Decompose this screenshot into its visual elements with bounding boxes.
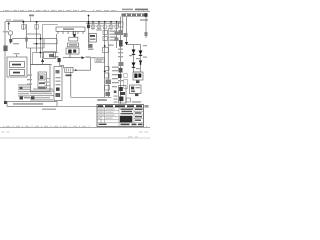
bottom row cells text — [99, 124, 143, 126]
hatch label above top-left box — [13, 20, 24, 22]
dark cluster CR stack — [119, 86, 127, 104]
box on x126.5 — [119, 22, 124, 27]
B1 dark marks — [134, 74, 137, 79]
A1 component — [39, 74, 45, 80]
wire from strip left down to A1 arrow — [43, 24, 59, 26]
PS1 label box 1 — [10, 62, 25, 68]
connector J2 — [65, 68, 73, 73]
column x123 — [122, 17, 124, 30]
top ruler faint labels — [5, 10, 115, 11]
marks on x117 — [115, 32, 119, 35]
A1 bottom marks — [39, 87, 46, 90]
page number text on fold line right — [128, 137, 133, 138]
B2 marks — [131, 87, 134, 90]
wire stub above bus x30.5 — [30, 17, 32, 22]
box U3 — [66, 48, 79, 54]
bus wire B (lower of pair) — [86, 22, 121, 24]
resistor on x93 — [92, 25, 95, 29]
A1 inner box — [38, 72, 47, 88]
diode on x126.5 — [125, 42, 128, 45]
A1 label — [39, 82, 45, 84]
box2 on x105 — [103, 37, 108, 41]
top ruler line — [0, 10, 150, 12]
wire stub from node J1 — [8, 22, 10, 30]
PS1 top label — [14, 53, 20, 54]
box U1 — [69, 37, 78, 41]
resistor on x105 top — [103, 25, 106, 29]
A1 right labels — [45, 78, 50, 86]
gray label right of x93 — [96, 30, 102, 31]
wire v x56.7 — [56, 34, 58, 53]
column x140.5 — [140, 45, 142, 73]
label box mid — [95, 58, 104, 63]
left tiny labels of A1 — [27, 75, 32, 85]
column x117 wire — [116, 22, 118, 48]
resistor R1 — [22, 25, 25, 30]
junction x23.5 — [23, 21, 25, 23]
small boxes right of x120.5 column — [124, 74, 127, 78]
arrowhead down — [73, 34, 77, 37]
node dot x140.5 — [140, 63, 142, 65]
revision table lines — [97, 105, 144, 127]
TB1 pins — [58, 31, 83, 34]
label left of M1 — [3, 31, 8, 32]
second diode on x140.5 — [139, 61, 143, 65]
note symbol dark — [20, 87, 23, 89]
wire h y72 connect — [134, 71, 141, 73]
diode D2 — [132, 50, 136, 54]
note symbol dark 2 — [31, 96, 34, 99]
relay box K1 — [44, 52, 56, 59]
arrow terminal right — [82, 56, 85, 59]
U2 label — [69, 44, 77, 46]
box3 on x105 — [103, 48, 109, 53]
junction node J1 — [8, 23, 10, 25]
sheet no. label top right — [122, 9, 148, 11]
box REG1 — [89, 34, 97, 43]
left border wire — [4, 22, 6, 103]
junction dot x105 — [104, 45, 106, 47]
column x108 wire — [107, 28, 109, 97]
tiny labels left of bus components — [90, 26, 115, 27]
wire h y64.5 — [31, 64, 53, 66]
part number dark block — [120, 116, 133, 123]
wire h y58.2 — [63, 57, 82, 59]
connector strip TB1 — [56, 27, 85, 31]
mesh wire h y52.5 — [33, 52, 59, 54]
A1 dark mark — [40, 76, 43, 80]
PS1 label text 2 — [13, 72, 20, 74]
mark on x146 — [145, 32, 148, 36]
connector P1 cluster — [3, 46, 7, 52]
connector blob — [58, 58, 61, 62]
column x88.5 wire — [88, 15, 90, 48]
bottom ruler ticks — [4, 126, 147, 128]
A2 marks — [56, 70, 60, 74]
mesh wire v x44 — [43, 39, 45, 48]
PS1 label box 2 — [10, 70, 25, 76]
notes text block left — [18, 84, 31, 96]
label right of arrow — [86, 56, 91, 58]
title text — [121, 109, 134, 115]
J2 pins — [66, 68, 68, 71]
labels right of column — [112, 67, 119, 103]
right long column x120.5 — [120, 17, 122, 104]
flat box bottom left — [7, 102, 57, 107]
wire v x63.5 — [63, 65, 65, 68]
wire h y70.5 to right — [73, 69, 91, 71]
dark mark left of CR stack — [114, 91, 117, 94]
mesh wire h y43.8 — [33, 43, 58, 45]
wire from TB1 to stack — [73, 31, 75, 37]
REG1 text — [90, 35, 95, 37]
K1 contacts — [49, 54, 54, 57]
faint page text bottom right — [139, 132, 143, 133]
wire top right from mesh — [52, 56, 59, 58]
label below S1 — [13, 43, 19, 44]
sheet bottom wire left — [71, 96, 112, 98]
wire v x23.5 — [23, 22, 25, 30]
mesh wire h y34 — [27, 33, 41, 35]
junctions on bus — [88, 21, 90, 23]
box B2 right — [130, 85, 142, 94]
column x126.5 — [126, 17, 128, 45]
contact marks on x26.5 — [25, 38, 27, 42]
NOTES label — [97, 100, 107, 101]
wire v x53.5 — [53, 53, 55, 58]
wire h y57 — [54, 56, 59, 58]
junction x36.6 — [36, 21, 38, 23]
wire v x90.5 — [90, 58, 92, 70]
bus wire A (main horizontal) — [5, 21, 121, 23]
junction dots mesh — [40, 38, 42, 40]
resistor R2 — [35, 25, 38, 30]
label strip TO SHEET 2 (hatched bar) — [122, 13, 148, 17]
revision table cell text — [98, 109, 115, 119]
REG1 bottom marks — [89, 44, 93, 48]
small text above title block right — [132, 101, 141, 102]
components on x105/x108 column y66-96 — [105, 67, 110, 71]
wire v x36.6 — [36, 22, 38, 53]
wire under M1 — [10, 35, 12, 44]
label under y97.3 — [98, 99, 106, 100]
small boxes above title block — [126, 98, 131, 102]
mesh wire v x40.5 — [40, 34, 42, 58]
box B1 right — [133, 72, 143, 80]
top ruler ticks — [4, 10, 149, 12]
faint page text bottom left — [2, 132, 5, 133]
connector arrow at left border bottom — [4, 101, 7, 104]
labels near diodes — [136, 58, 140, 59]
text below flat box — [42, 109, 56, 110]
box on x105 — [103, 31, 108, 35]
faint text above left box — [6, 19, 11, 20]
right cells text — [135, 109, 143, 121]
tall box A2 — [54, 67, 62, 101]
U3 dark contacts — [68, 50, 71, 54]
wire label 4.3 right — [140, 19, 148, 21]
resistor on x117 — [115, 25, 118, 29]
column x105 wire — [104, 22, 106, 98]
bottom ruler line — [0, 126, 150, 128]
diode D3 — [139, 51, 143, 55]
mesh wire h y48 — [27, 47, 45, 49]
resistor on x99 — [98, 25, 101, 29]
wire v x30.5 down to A1 — [30, 48, 32, 65]
mesh wire v x57 — [56, 39, 58, 44]
marks on x120.5 — [119, 30, 124, 35]
sheet bottom border — [57, 105, 104, 107]
mesh wire h y38.7 — [12, 38, 57, 40]
wire v x32.5 down to A1 — [32, 53, 34, 65]
wire below U3 — [69, 54, 71, 58]
column x133.5 — [133, 45, 135, 73]
switch S1 — [9, 39, 12, 42]
bottom ruler faint labels — [6, 126, 86, 127]
column x93 wire — [92, 22, 94, 30]
motor symbol M1 — [8, 31, 12, 35]
box U2 — [68, 43, 79, 47]
faint fold line bottom right — [0, 137, 150, 139]
left panel box PS1 — [7, 57, 27, 77]
resistor on x111 — [110, 25, 113, 29]
wire h y65.3 — [60, 64, 64, 66]
ground G1 — [136, 81, 139, 84]
arrow into A1 top — [41, 59, 44, 63]
title block header text — [98, 105, 142, 107]
notes text block middle — [30, 88, 54, 100]
TB1 label — [63, 28, 74, 30]
title block frame — [97, 105, 144, 127]
label TB below J2 — [66, 74, 72, 76]
wire v x26.5 — [26, 24, 28, 48]
zone mark right of title block — [145, 105, 149, 108]
column x146 — [145, 17, 147, 38]
PS1 label text 1 — [12, 64, 21, 66]
inner box assembly A1 — [31, 65, 51, 92]
wire h y44.5 — [127, 44, 141, 46]
ground G2 — [135, 94, 138, 97]
PS1 top tick — [16, 55, 18, 58]
label 2.1 — [29, 15, 34, 17]
labels right of x105 — [109, 31, 117, 46]
column x99 wire — [98, 22, 100, 30]
node dot x88.5 top — [88, 15, 90, 17]
junction dots on bus columns — [92, 21, 117, 23]
column x111 wire — [110, 22, 112, 30]
flat box text — [13, 103, 43, 105]
diode D4 — [132, 63, 136, 67]
diode D1 on x88.5 — [87, 25, 90, 29]
wire v x71.3 long down — [70, 72, 72, 97]
wire v x59.5 — [59, 63, 61, 66]
